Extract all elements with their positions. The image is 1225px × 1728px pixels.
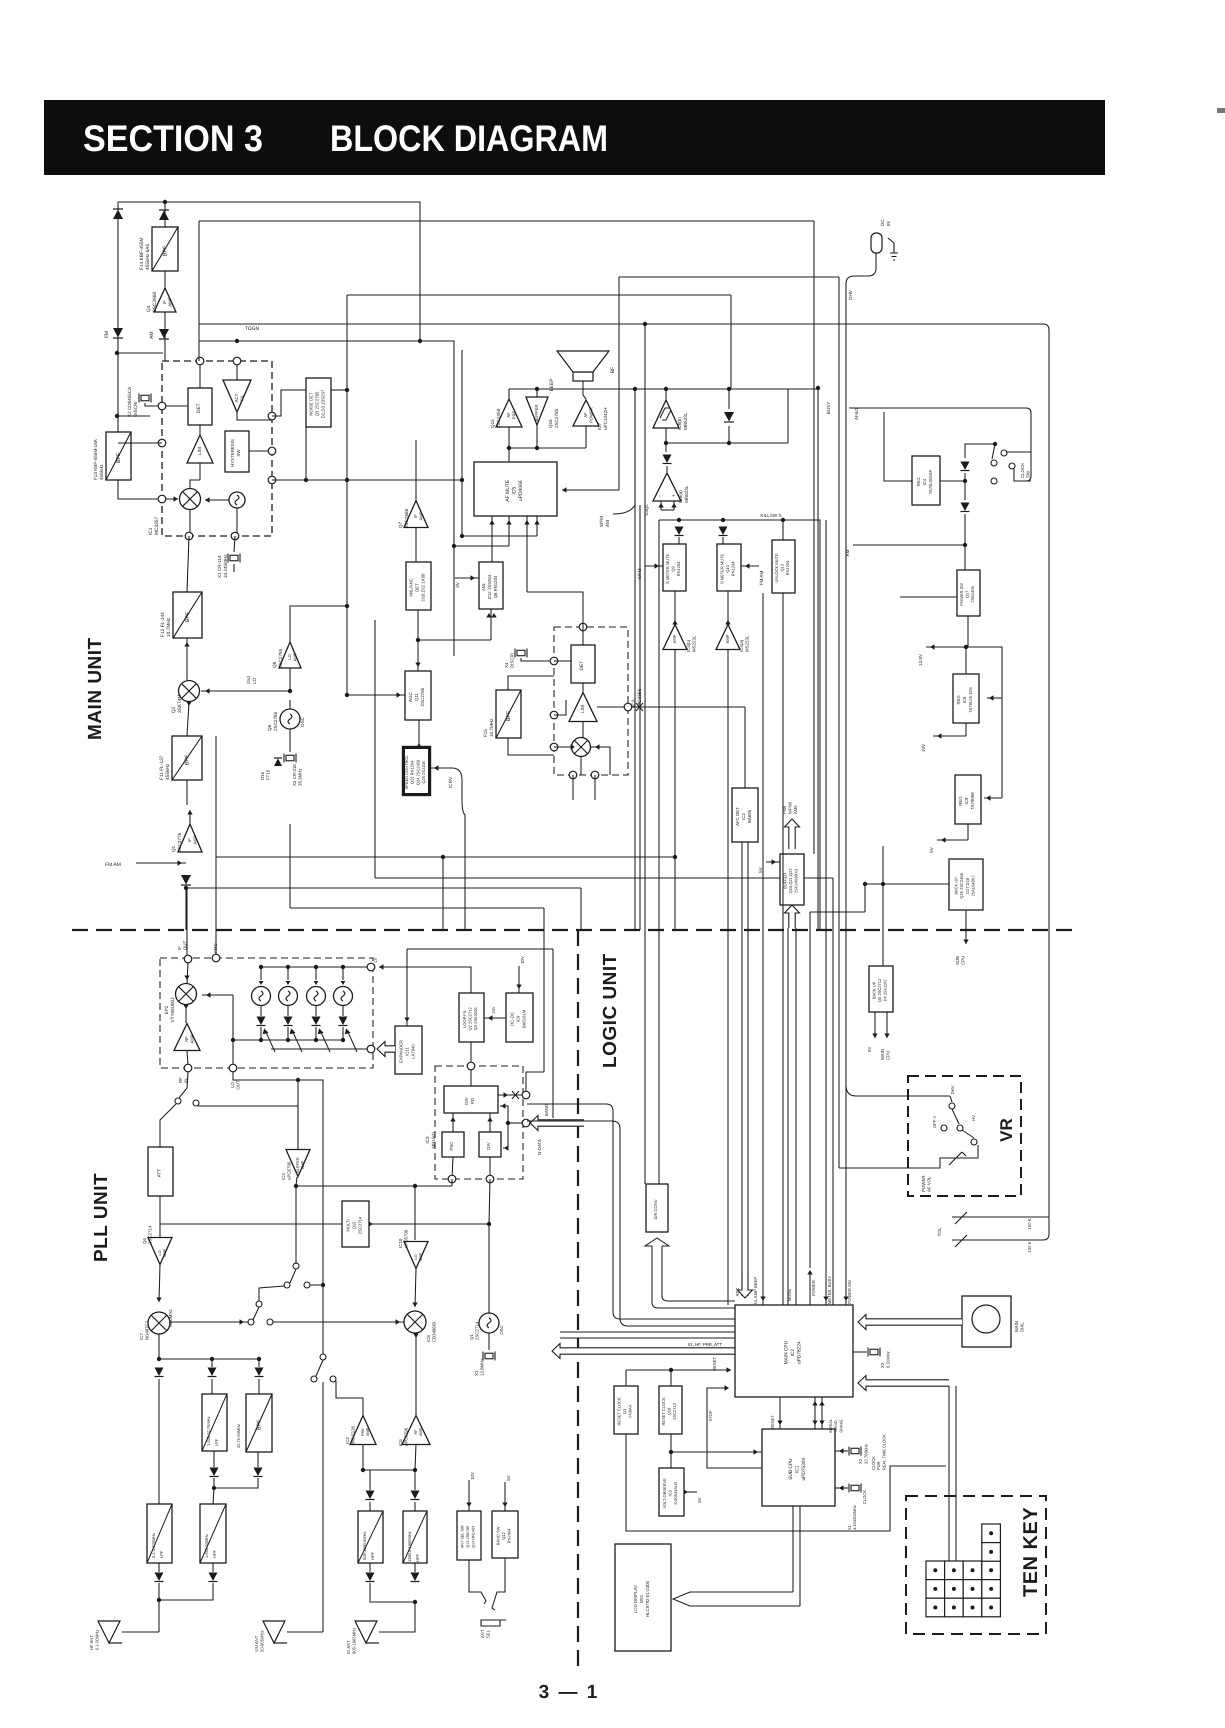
svg-text:uPC6796: uPC6796 (404, 1229, 409, 1248)
wire x728 down (727, 649, 729, 1305)
crystal X3 6.31MHz (868, 1348, 880, 1357)
svg-text:AM: AM (845, 549, 850, 556)
crystal X1 4.194304MHz (849, 1484, 861, 1493)
label V/U ANT (254, 1630, 264, 1652)
block DET wfm (571, 645, 595, 683)
junction (115, 351, 119, 355)
wire (159, 1265, 160, 1302)
node (624, 703, 632, 711)
svg-text:BACK UP: BACK UP (954, 877, 959, 895)
svg-text:IN: IN (886, 221, 891, 226)
switch blade VR b (962, 1130, 974, 1138)
wire AF POWER base (585, 426, 587, 448)
arrowhead (416, 743, 421, 748)
wire right vertical x839 (838, 277, 840, 1168)
svg-text:10.245MHz: 10.245MHz (223, 554, 228, 578)
svg-text:MAIN: MAIN (1014, 1321, 1019, 1332)
junction (633, 387, 637, 391)
svg-text:uPD4066: uPD4066 (518, 480, 524, 501)
wire (417, 610, 419, 640)
svg-text:3SK74M: 3SK74M (177, 695, 183, 713)
svg-text:IF: IF (162, 300, 167, 304)
svg-text:IC3: IC3 (668, 1490, 673, 1497)
wire 5V (937, 839, 968, 841)
diode (181, 875, 191, 885)
wire (984, 797, 1002, 799)
wire (661, 509, 674, 511)
x mark (636, 703, 643, 711)
svg-text:AMP: AMP (301, 1160, 305, 1169)
wire DIV PD out (498, 1094, 522, 1096)
arrowhead (489, 520, 494, 525)
label MAIN UNIT (85, 637, 106, 740)
wire af vol (839, 1158, 946, 1168)
svg-text:IC11: IC11 (405, 1047, 410, 1056)
svg-text:AMP: AMP (725, 634, 730, 643)
arrowhead (872, 1034, 877, 1039)
svg-text:DET: DET (196, 403, 202, 413)
wire x347 down (346, 295, 348, 695)
wire mixer-F11 (187, 702, 189, 736)
label 2nd LO (246, 676, 257, 684)
wire (296, 1177, 297, 1186)
wire (415, 1444, 416, 1470)
arrowhead (187, 810, 192, 815)
svg-text:OSC: OSC (300, 716, 305, 727)
junction (184, 886, 188, 890)
bus arrow IG HF PRE ATT (552, 1344, 735, 1359)
diode (411, 1491, 420, 1500)
node (268, 447, 276, 455)
svg-text:TOL: TOL (937, 1227, 942, 1236)
arrowhead (502, 1503, 507, 1508)
svg-text:2SC2714: 2SC2714 (148, 1225, 153, 1244)
svg-text:Q18: Q18 (667, 1407, 672, 1415)
svg-text:V/U ANT: V/U ANT (254, 1635, 259, 1652)
svg-text:uPC6796: uPC6796 (287, 1161, 292, 1180)
label CLOCK SW (1020, 463, 1031, 478)
wire F14 chain (164, 202, 166, 361)
node (268, 412, 276, 420)
svg-text:DIV: DIV (464, 1097, 469, 1104)
wire to IC8 (273, 1321, 404, 1323)
wire Q16 top (536, 389, 538, 397)
junction (321, 1283, 325, 1287)
amp IC10 LO AMP (404, 1242, 428, 1269)
junction (535, 387, 539, 391)
arrowhead (491, 613, 496, 618)
wire (370, 1583, 415, 1602)
arrowhead (156, 1298, 161, 1303)
arrowhead into VCO (314, 981, 319, 985)
junction (664, 441, 668, 445)
svg-text:+: + (671, 494, 677, 497)
svg-text:DC-DC: DC-DC (510, 1012, 515, 1026)
svg-text:DHV: DHV (950, 1085, 955, 1094)
label VR (997, 1118, 1016, 1142)
wire ICRV down (452, 768, 465, 930)
svg-text:F12 FL-144: F12 FL-144 (160, 612, 166, 637)
wire (187, 1072, 188, 1088)
wire RESET cpu-sub (779, 1397, 781, 1429)
svg-text:DS1: DS1 (639, 1594, 644, 1603)
svg-text:ND487C1: ND487C1 (145, 1320, 150, 1340)
label F13 (93, 438, 104, 480)
svg-text:REG: REG (916, 477, 921, 486)
arrowhead (930, 644, 935, 649)
wire lim-mixer (582, 721, 584, 737)
wire preamp up (336, 1381, 363, 1415)
node (268, 476, 276, 484)
svg-text:MR823L: MR823L (684, 485, 689, 503)
label X1 12.8MHz (474, 1358, 485, 1376)
label IC7 ND487C1 (139, 1320, 150, 1340)
label 3V (455, 581, 460, 588)
wire bus y341 TOGN (199, 341, 454, 656)
block HPF 905-1380.5MHz (358, 1511, 383, 1563)
diode D? (159, 210, 169, 220)
diode (961, 503, 970, 512)
node (184, 955, 192, 963)
wire x731 down (730, 295, 732, 388)
wire Q15-AFMUTE (508, 427, 510, 462)
wire AFC line b (747, 842, 749, 1296)
svg-text:MC3357: MC3357 (154, 517, 160, 535)
wire y949 (407, 948, 553, 950)
block MAIN DIAL (962, 1296, 1011, 1347)
svg-text:HYSTERESIS: HYSTERESIS (230, 439, 235, 467)
block SPEED CONTROL (403, 747, 430, 795)
label IC4 uPC6796 (281, 1161, 292, 1180)
wire (159, 1224, 161, 1238)
wire (964, 514, 966, 545)
wire left vertical (117, 202, 119, 432)
wire (287, 1027, 289, 1040)
svg-text:BPF: BPF (506, 710, 512, 721)
svg-text:LO: LO (252, 677, 257, 684)
junction (231, 1038, 235, 1042)
svg-text:10V: 10V (470, 1472, 475, 1480)
svg-text:FM AM: FM AM (105, 862, 121, 868)
wire to discri (117, 415, 150, 417)
wire DC AMP down (289, 824, 291, 908)
wire det top (582, 627, 584, 645)
svg-text:IC8: IC8 (962, 696, 967, 703)
wire loopfil out (470, 1042, 472, 1066)
mixer EP2 (176, 984, 197, 1005)
filter F11 FL-137 (172, 736, 202, 780)
svg-text:BAND SW: BAND SW (495, 1526, 500, 1545)
wire (987, 697, 1002, 699)
svg-text:Q1: Q1 (469, 1334, 474, 1340)
svg-text:TOGN: TOGN (245, 326, 260, 332)
wire RESET (626, 1369, 731, 1371)
arrowhead (379, 964, 384, 969)
label Q4 2SC2668 (146, 292, 158, 312)
svg-text:AF: AF (506, 412, 511, 418)
block ANL D12 (479, 562, 503, 609)
wire DHV from DC IN (846, 253, 876, 1300)
label ANL AMP BEEP (753, 1277, 758, 1307)
svg-text:MAIN CPU: MAIN CPU (784, 1340, 790, 1364)
svg-text:D/A CONV: D/A CONV (653, 1199, 658, 1219)
junction (673, 855, 677, 859)
arrowhead (884, 1034, 889, 1039)
junction (669, 1450, 673, 1454)
wire reg feed (966, 647, 1002, 798)
svg-text:F15: F15 (483, 729, 488, 737)
switch blade b (290, 1269, 296, 1283)
wire (369, 1470, 371, 1490)
svg-text:Q12: Q12 (501, 1531, 506, 1539)
junction (314, 965, 318, 969)
bus arrow into LCD (673, 1592, 800, 1606)
dashed block EP2 VTY68U80J (160, 958, 373, 1068)
wire LO tap (232, 995, 234, 1064)
junction (781, 518, 785, 522)
wire hyst out (249, 450, 272, 452)
switch contact (949, 1103, 955, 1109)
junction (664, 387, 668, 391)
wire bus y277 (619, 276, 839, 278)
wire (362, 1444, 364, 1470)
junction (506, 1121, 510, 1125)
arrowhead (174, 496, 179, 501)
svg-text:Q24 2SC2458: Q24 2SC2458 (415, 759, 420, 785)
diode (210, 1468, 219, 1477)
label IF OUT (177, 940, 188, 950)
wire into VR (846, 1085, 950, 1096)
wire (214, 1478, 258, 1488)
wire lim-afc (744, 707, 746, 788)
label 100K (1027, 1218, 1032, 1229)
ten key keypad (926, 1524, 1000, 1617)
svg-text:2SC2785: 2SC2785 (273, 711, 278, 731)
mixer wfm (572, 738, 591, 757)
wire POWER SW end (845, 1300, 847, 1305)
wire to noise det (272, 390, 306, 416)
node (185, 532, 193, 540)
bus arrow MAIN DIAL to CPU (858, 1315, 962, 1330)
label Q7 2SC2668 (398, 508, 409, 528)
wire tenkey b (955, 1386, 957, 1561)
wire into CPU d (560, 1337, 735, 1339)
wire power loop (810, 911, 865, 913)
wire antsel out (469, 1560, 486, 1604)
svg-text:905-1380.5MHz: 905-1380.5MHz (362, 1532, 367, 1560)
block MAIN CPU IC2 uPD78224 (735, 1305, 853, 1397)
wire vu up (322, 1382, 324, 1632)
svg-text:Q10: Q10 (725, 564, 730, 572)
svg-text:IC9: IC9 (516, 1015, 521, 1022)
svg-text:905-1905MHz: 905-1905MHz (351, 1628, 356, 1654)
svg-text:CB3486/B: CB3486/B (432, 1322, 437, 1342)
switch contact (991, 460, 997, 466)
varactor arrow (263, 1029, 275, 1052)
wire (489, 1113, 491, 1132)
wire (728, 389, 730, 409)
label PLL UNIT (91, 1173, 112, 1262)
wire mixer out (189, 509, 191, 536)
arrowhead (397, 692, 402, 697)
wire KILLSW S METER (659, 520, 820, 930)
main dial circle (972, 1305, 1000, 1333)
arrowhead (839, 1448, 844, 1453)
switch blade att (179, 1088, 187, 1098)
svg-text:D16: D16 (260, 771, 265, 780)
wire bus left vertical (198, 221, 200, 361)
wire FM AM in (136, 862, 186, 864)
svg-text:ICRV: ICRV (448, 776, 453, 788)
arrowhead (963, 940, 968, 945)
arrowhead (471, 575, 476, 580)
svg-text:VTY68U80J: VTY68U80J (170, 998, 175, 1023)
svg-text:AF: AF (583, 412, 588, 418)
svg-text:MC-5136: MC-5136 (351, 1425, 356, 1444)
block LCD DISPLAY DS1 (615, 1544, 671, 1651)
svg-text:HPF: HPF (212, 1549, 217, 1558)
label SUB CPU arrow (955, 956, 966, 965)
wire (297, 1080, 299, 1150)
svg-text:HV: HV (971, 1115, 976, 1121)
wire y908 (290, 907, 544, 909)
junction (157, 1598, 161, 1602)
arrowhead (369, 1221, 374, 1226)
oscillator VCO 1 (252, 987, 271, 1006)
svg-text:3 — 1: 3 — 1 (539, 1682, 600, 1703)
svg-text:Q4: Q4 (142, 1238, 147, 1244)
label HV (971, 1115, 976, 1121)
svg-text:PRE: PRE (361, 1428, 365, 1436)
label D16 FT15 (260, 769, 271, 780)
wire discri-det (162, 405, 188, 407)
svg-text:IC2: IC2 (741, 813, 746, 820)
wire long y480 (272, 479, 462, 481)
wire bus y324 (199, 323, 1043, 325)
block SUB CPU IC1 uPD75304 (762, 1429, 835, 1506)
block ANT SEL SW (457, 1511, 481, 1560)
label DHV (848, 289, 853, 300)
wire (189, 810, 191, 824)
svg-text:DHV: DHV (848, 289, 853, 300)
wire 10V dcdc (518, 966, 520, 993)
wire (414, 1563, 416, 1572)
wire lim out (199, 463, 201, 480)
label FM AM in (759, 571, 764, 586)
arrowhead (434, 765, 439, 770)
arrowhead (727, 1367, 732, 1372)
amp Q15 AF PRE (496, 399, 522, 427)
wire Q7 up (415, 440, 417, 501)
wire x783 (782, 593, 784, 1305)
bus arrow into buffer (785, 905, 800, 928)
svg-text:Q3: Q3 (622, 1408, 627, 1414)
svg-text:5V: 5V (929, 846, 934, 853)
svg-text:LO: LO (414, 1254, 418, 1259)
dashed block VR (908, 1076, 1021, 1196)
svg-text:CLOCK: CLOCK (862, 1490, 867, 1505)
svg-text:Q15: Q15 (352, 1221, 357, 1230)
svg-text:IC4(b): IC4(b) (686, 639, 691, 652)
svg-text:BUFFER: BUFFER (296, 1157, 300, 1172)
wire (470, 1070, 472, 1086)
bus arrow TEN KEY to CPU (858, 1376, 949, 1391)
svg-text:KILLSW S: KILLSW S (760, 513, 781, 518)
svg-text:K2 CD8455CA: K2 CD8455CA (127, 386, 132, 417)
svg-text:NOISE DET: NOISE DET (309, 392, 314, 416)
arrowhead (941, 837, 946, 842)
svg-text:13.8V: 13.8V (918, 653, 923, 666)
block BACK UP Q26 (949, 859, 983, 910)
wire (665, 389, 667, 400)
junction (452, 544, 456, 548)
label N-DATA (537, 1139, 542, 1155)
arrowhead (989, 695, 994, 700)
wire top (118, 201, 165, 203)
label SERIAL HAND SHAKE (828, 1418, 843, 1433)
wire 5V bandsw (504, 1482, 506, 1511)
wire (158, 1583, 160, 1632)
label LPF a (206, 1416, 219, 1446)
amp Q4 LO AMP (148, 1238, 172, 1265)
wire to S/A CONV (658, 520, 660, 1184)
wire (886, 1012, 888, 1038)
svg-text:LOGIC UNIT: LOGIC UNIT (600, 953, 621, 1068)
arrowhead (240, 1319, 245, 1324)
dashed block IC3 MB1501 (435, 1066, 523, 1179)
bus arrow expander out (377, 1042, 395, 1057)
label IC6 uPC6796 (398, 1427, 409, 1446)
block LPF 1.630-32.75MHz (202, 1394, 227, 1451)
arrowhead into VCO (259, 981, 264, 985)
wire x643 long vertical (644, 323, 646, 1184)
wire actfil in (236, 361, 238, 380)
svg-text:BA6161M: BA6161M (521, 1009, 526, 1028)
speaker BF (557, 351, 609, 381)
svg-text:2SC2712: 2SC2712 (672, 1402, 677, 1419)
label OFFV (932, 1116, 937, 1129)
svg-text:S METER MUTE: S METER MUTE (665, 553, 670, 584)
wire buffer to switch (295, 1186, 297, 1264)
diode (209, 1573, 218, 1582)
block POWER SW Q17 (957, 570, 980, 616)
svg-text:POWER SW: POWER SW (847, 1280, 852, 1304)
svg-text:Q5 2SC2712: Q5 2SC2712 (877, 978, 882, 1002)
svg-text:PSC: PSC (449, 1142, 454, 1151)
label HPF f (407, 1531, 420, 1562)
wire (258, 1359, 260, 1367)
wire (369, 1223, 489, 1225)
hysteresis glyph (660, 408, 671, 420)
svg-text:Q6: Q6 (267, 724, 272, 731)
wire (673, 501, 675, 510)
wire (260, 1006, 262, 1016)
wire F12-mixer (186, 638, 188, 680)
diode AM (159, 329, 169, 339)
label IC6b MR823L (677, 412, 688, 430)
wire (118, 442, 162, 444)
wire (343, 966, 367, 968)
svg-text:Q2: Q2 (171, 706, 177, 713)
label X3 6.31MHz (880, 1351, 890, 1368)
label HF ANT (89, 1630, 99, 1650)
wire x462 (461, 350, 463, 536)
junction (345, 388, 349, 392)
junction (863, 882, 867, 886)
svg-text:AF&O: AF&O (854, 407, 859, 420)
label LOGIC UNIT (600, 953, 621, 1068)
arrowhead (184, 642, 189, 647)
